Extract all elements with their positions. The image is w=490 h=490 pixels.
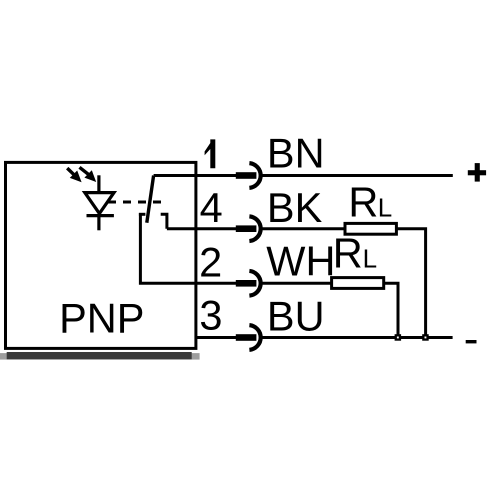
switch lever — [147, 176, 154, 223]
- terminal — [466, 340, 477, 343]
wire from RL2 down to minus rail — [384, 283, 399, 337]
connector socket row1 — [249, 163, 260, 188]
connector socket row3 — [249, 325, 260, 350]
label RL 1 — [348, 179, 392, 226]
connector pin row2 — [236, 280, 257, 287]
label RL 2 — [333, 230, 377, 277]
wire BK to resistor — [263, 227, 345, 230]
light arrow 1 — [67, 168, 81, 182]
svg-text:WH: WH — [266, 238, 335, 285]
wire pin4 from NO contact — [167, 227, 237, 230]
junction RL2/minus rail — [395, 334, 402, 341]
connector pin row3 — [236, 334, 257, 341]
svg-text:R: R — [348, 179, 378, 226]
svg-text:L: L — [378, 193, 392, 223]
wire BN — [263, 174, 453, 177]
svg-text:3: 3 — [199, 292, 222, 339]
svg-text:L: L — [363, 244, 377, 274]
resistor RL 2 — [332, 278, 384, 289]
+ terminal — [468, 163, 486, 182]
connector pin row1 — [236, 172, 257, 179]
switch contact NC stub — [139, 213, 146, 216]
svg-text:PNP: PNP — [59, 294, 144, 341]
wire BU minus rail — [263, 336, 453, 339]
svg-text:BK: BK — [267, 184, 323, 231]
svg-text:R: R — [333, 230, 363, 277]
wire pin1 inside box — [154, 174, 237, 177]
wire from RL1 down to minus rail — [397, 229, 426, 338]
connector socket row4 — [249, 216, 260, 241]
wire pin2 from NC contact — [140, 213, 236, 283]
svg-text:2: 2 — [199, 238, 222, 285]
wire pin3 stub — [195, 336, 237, 339]
dashed actuation link — [108, 201, 162, 204]
svg-text:BN: BN — [267, 130, 325, 177]
svg-text:BU: BU — [267, 292, 325, 339]
light arrow 2 — [80, 167, 97, 182]
svg-text:4: 4 — [200, 184, 223, 231]
junction RL1/minus rail — [422, 334, 429, 341]
wire WH to resistor — [263, 282, 332, 285]
connector pin row4 — [236, 225, 257, 232]
sensor body shadow — [0, 352, 200, 360]
photodiode D1 — [85, 175, 114, 230]
switch contact NO stub — [161, 214, 167, 228]
connector socket row2 — [249, 271, 260, 296]
resistor RL 1 — [345, 223, 396, 234]
sensor body box — [6, 162, 196, 348]
pin number 1 — [205, 139, 216, 168]
